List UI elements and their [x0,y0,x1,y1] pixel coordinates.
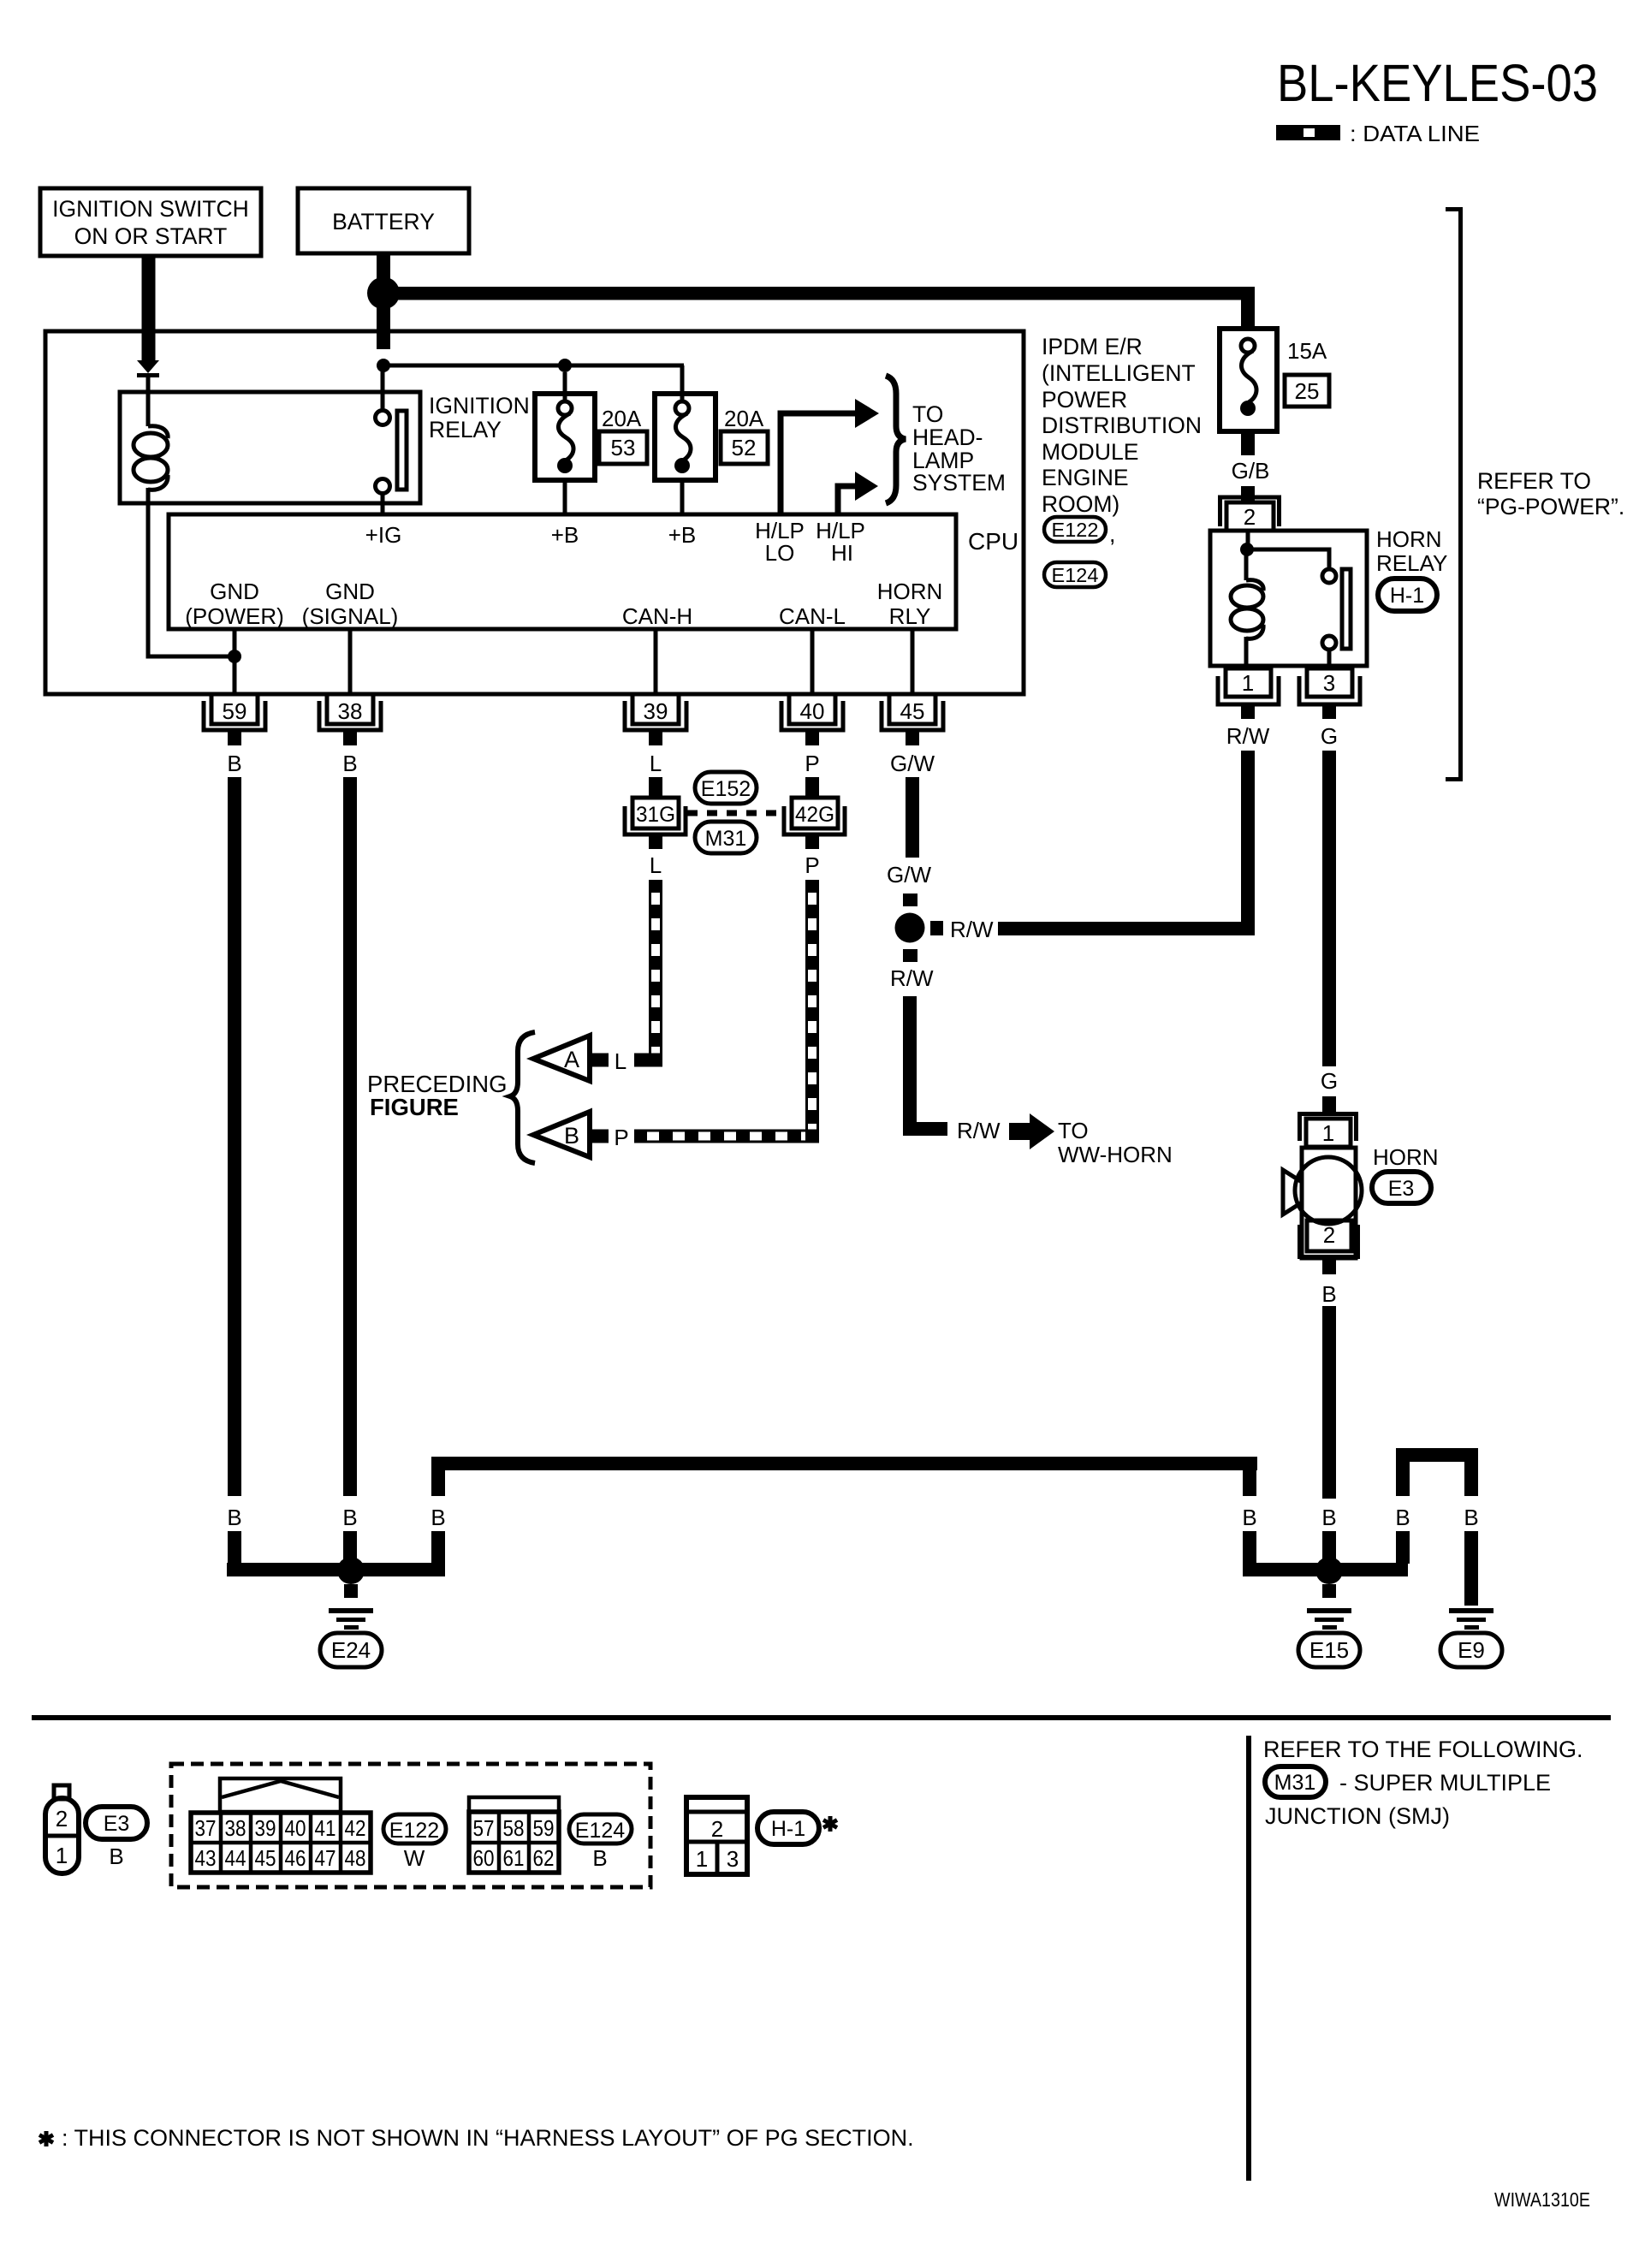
ground bus right [1243,1563,1408,1576]
svg-text:H-1: H-1 [1390,584,1424,608]
svg-text:39: 39 [644,698,668,724]
wire ignition switch feed (thick) [142,256,156,360]
connector 2 (horn) [1300,1220,1358,1274]
svg-text:G/W: G/W [890,751,935,776]
svg-text:M31: M31 [705,827,747,851]
svg-text:IGNITION: IGNITION [429,393,530,419]
connector ref E124 [1044,562,1106,587]
svg-text:B: B [1321,1281,1336,1307]
svg-text:L: L [650,852,662,878]
wire to fuse 52 [680,365,685,401]
connector ref M31 (SMJ) [1265,1766,1326,1797]
connector ref H-1 (bottom) [757,1812,819,1844]
ground symbol E9 [1449,1608,1494,1630]
wire G stub to horn (thick) [1322,1096,1336,1112]
connector face E3 (bottle) [45,1785,79,1873]
svg-text:G: G [1321,1068,1338,1094]
svg-text:45: 45 [255,1845,276,1871]
svg-text:ON OR START: ON OR START [74,223,228,249]
svg-text:B: B [342,751,357,776]
svg-text:P: P [805,751,819,776]
ground ref E24 [320,1633,382,1667]
connector face E124 grid [469,1812,559,1873]
connector ref E122 [1044,517,1106,542]
ignition relay coil [148,426,168,438]
connector 1 (horn) [1300,1114,1357,1148]
brace to headlamp system [886,376,906,503]
svg-text:JUNCTION (SMJ): JUNCTION (SMJ) [1265,1803,1450,1829]
svg-text:POWER: POWER [1042,387,1127,413]
wire relay contact to +IG [381,493,385,514]
svg-text:38: 38 [338,698,363,724]
svg-text:42G: 42G [795,803,834,827]
wire B from 59 (thick) [228,777,241,1496]
svg-text:1: 1 [1322,1120,1334,1146]
CPU box [169,514,956,629]
wire relay coil to ground junction [148,503,235,656]
horn relay coil [1244,549,1249,580]
wire to fuse 53 [563,372,567,401]
connector face H-1 [686,1797,747,1874]
connector ref H-1 [1378,579,1437,611]
connector pin 3 (horn relay) [1299,668,1360,719]
wire fuse to G/B label (thick) [1241,431,1255,455]
svg-text:HORN: HORN [877,579,943,604]
wire nub below E15 junction [1322,1584,1336,1598]
connector face E124 top bar [469,1797,559,1812]
link bus horizontal (thick) [431,1457,1257,1470]
svg-text:P: P [614,1125,628,1150]
diode (ignition switch feed) [137,360,159,373]
wire nub right of junction [930,921,943,935]
connector ref E3 (horn) [1372,1172,1431,1203]
connector ref E152 [695,772,757,804]
wire battery feed (thick) [377,253,390,349]
svg-text:MODULE: MODULE [1042,439,1138,465]
svg-text:59: 59 [223,698,247,724]
svg-text:IGNITION SWITCH: IGNITION SWITCH [52,196,249,222]
svg-text:E122: E122 [1052,519,1099,541]
svg-text:: DATA LINE: : DATA LINE [1350,121,1480,146]
connector pin 1 (horn relay) [1218,668,1279,719]
svg-text:- SUPER MULTIPLE: - SUPER MULTIPLE [1339,1770,1551,1796]
wire to relay contact [381,365,385,411]
svg-text:B: B [109,1843,123,1869]
wire R/W down (thick) [903,996,917,1136]
node battery junction [367,277,400,310]
wire nub below junction [903,949,917,962]
wire nub below E24 junction [344,1584,358,1598]
ignition relay box [120,392,420,503]
svg-text:REFER TO: REFER TO [1477,468,1591,494]
battery box [298,188,469,253]
connector ref M31 [695,822,757,853]
svg-text:RELAY: RELAY [1376,550,1447,576]
svg-text:57: 57 [473,1815,495,1841]
ignition switch box [40,188,261,256]
svg-text:1: 1 [56,1843,68,1868]
connector pin 45 [882,694,943,745]
svg-text:E24: E24 [331,1637,371,1663]
node gnd power junction [228,650,241,663]
svg-text:H-1: H-1 [771,1817,805,1841]
wire R/W from pin1 (thick) [1241,751,1255,935]
svg-text:47: 47 [315,1845,336,1871]
wire G from pin3 (thick) [1322,751,1336,1066]
svg-text:40: 40 [800,698,825,724]
wire L stub to 31G [649,777,662,798]
preceding figure triangle A [533,1036,590,1081]
svg-text:37: 37 [195,1815,217,1841]
svg-text:25: 25 [1295,378,1320,404]
svg-text:CAN-H: CAN-H [622,603,692,629]
arrow to WW-HORN [1009,1123,1030,1140]
wire G/W upper (thick) [906,777,919,858]
wire coil junction to contact [1247,549,1329,569]
svg-text:53: 53 [611,435,636,460]
wire GND SIGNAL pin 38 [348,629,353,694]
svg-text:20A: 20A [724,406,764,431]
node horn relay coil junction [1240,543,1254,556]
svg-text:A: A [564,1047,579,1072]
svg-text:46: 46 [285,1845,306,1871]
svg-text:R/W: R/W [890,965,934,991]
wire B resume segments right [1243,1531,1256,1564]
wire H/LP LO to headlamp arrow [781,413,855,514]
svg-text:+B: +B [551,522,579,548]
svg-text:G/B: G/B [1232,458,1270,484]
connector ref E3 (bottom) [86,1807,147,1839]
wire HORN RLY pin 45 [911,629,915,694]
svg-text:39: 39 [255,1815,276,1841]
svg-text:WW-HORN: WW-HORN [1058,1142,1173,1167]
svg-text:E15: E15 [1309,1637,1349,1663]
svg-text:B: B [1321,1505,1336,1530]
svg-text:B: B [564,1123,579,1149]
wire pin2 into relay [1246,531,1250,549]
legend data-line sample bar [1276,125,1340,140]
svg-text:60: 60 [473,1845,495,1871]
svg-text:+IG: +IG [365,522,402,548]
svg-text:GND: GND [210,579,259,604]
dashed group box [171,1764,650,1887]
svg-text:15A: 15A [1287,338,1327,364]
wire fuse 53 to +B [563,480,567,514]
connector 42G [784,798,845,849]
ground symbol E15 [1307,1608,1351,1630]
svg-text:G/W: G/W [887,862,931,888]
svg-text:(POWER): (POWER) [185,603,284,629]
wire B from horn (thick) [1322,1306,1336,1499]
svg-text:45: 45 [900,698,925,724]
svg-text:E124: E124 [1052,564,1099,586]
wire junction to fuses (horizontal) [383,364,684,368]
wire GND POWER pin 59 [233,629,237,694]
svg-text:BL-KEYLES-03: BL-KEYLES-03 [1277,54,1598,112]
svg-text:B: B [227,751,241,776]
svg-text:1: 1 [1242,670,1254,696]
svg-text:(INTELLIGENT: (INTELLIGENT [1042,360,1196,386]
svg-text:40: 40 [285,1815,306,1841]
svg-text:48: 48 [345,1845,366,1871]
svg-text:2: 2 [1244,504,1256,530]
svg-text:38: 38 [225,1815,246,1841]
svg-text:GND: GND [325,579,375,604]
node fuse 53 junction [558,359,572,372]
node R/W junction [895,913,925,943]
svg-text:G: G [1321,723,1338,749]
bracket refer to PG-POWER [1446,210,1461,780]
ground symbol E24 [329,1608,373,1630]
connector pin 59 [204,694,265,745]
connector face E122 grid [191,1813,371,1873]
node ground junction E24 [337,1557,365,1584]
fuse 53 (20A) [535,394,595,480]
wire CAN-L pin 40 [811,629,815,694]
SMJ dashed link 31G-42G [687,810,784,816]
svg-text:1: 1 [696,1846,708,1872]
svg-text:R/W: R/W [1226,723,1270,749]
svg-text:52: 52 [732,435,757,460]
svg-text:FIGURE: FIGURE [370,1094,459,1120]
svg-text:2: 2 [56,1806,68,1832]
svg-text:E124: E124 [575,1819,625,1843]
svg-text:62: 62 [533,1845,555,1871]
wire P stub to 42G [805,777,819,798]
svg-text:RLY: RLY [889,603,931,629]
svg-text:CAN-L: CAN-L [779,603,846,629]
svg-text:59: 59 [533,1815,555,1841]
wire H/LP HI to headlamp arrow [838,486,855,514]
svg-text:: THIS CONNECTOR IS NOT SHOWN: : THIS CONNECTOR IS NOT SHOWN IN “HARNES… [62,2125,914,2151]
wire CAN-L data line (striped) [805,880,819,1130]
svg-text:B: B [1464,1505,1478,1530]
svg-text:BATTERY: BATTERY [332,209,435,235]
asterisk mark (H-1) [823,1816,837,1832]
svg-text:DISTRIBUTION: DISTRIBUTION [1042,413,1202,438]
wire battery bus to 15A fuse (thick) [383,287,1255,300]
svg-text:E9: E9 [1458,1637,1485,1663]
svg-text:M31: M31 [1274,1771,1316,1795]
wire B from 38 (thick) [343,777,357,1496]
divider line (refer column) [1246,1736,1251,2181]
svg-text:B: B [1395,1505,1410,1530]
svg-text:2: 2 [711,1816,723,1842]
wire fuse 52 to +B [680,480,685,514]
svg-text:20A: 20A [602,406,642,431]
svg-text:R/W: R/W [957,1118,1001,1143]
svg-text:R/W: R/W [950,917,994,942]
horn body [1302,1148,1356,1258]
svg-text:3: 3 [727,1846,739,1872]
svg-text:B: B [592,1845,607,1871]
svg-text:,: , [1109,521,1115,547]
connector pin 38 [319,694,381,745]
branch loop to E9 [1396,1448,1478,1462]
svg-text:WIWA1310E: WIWA1310E [1494,2188,1590,2211]
svg-text:E3: E3 [104,1812,130,1836]
svg-text:REFER TO THE FOLLOWING.: REFER TO THE FOLLOWING. [1263,1737,1583,1762]
svg-text:W: W [404,1845,425,1871]
svg-text:LO: LO [765,540,795,566]
footnote asterisk [39,2131,53,2146]
svg-text:HEAD-: HEAD- [912,425,983,450]
wire CAN-H pin 39 [654,629,658,694]
wire CAN-H data line (striped) [649,880,662,1054]
svg-text:3: 3 [1323,670,1335,696]
connector pin 40 [781,694,843,745]
svg-text:B: B [342,1505,357,1530]
connector ref E124 (bottom) [569,1814,632,1843]
svg-text:P: P [805,852,819,878]
preceding figure triangle B [533,1112,590,1157]
svg-text:“PG-POWER”.: “PG-POWER”. [1477,494,1624,520]
svg-text:HORN: HORN [1376,526,1442,552]
wire nub above R/W junction [903,894,917,906]
horn relay box [1210,531,1367,666]
brace preceding figure [510,1032,535,1163]
svg-text:B: B [1242,1505,1256,1530]
connector 31G [625,798,686,849]
svg-text:58: 58 [503,1815,525,1841]
ground ref E9 [1440,1633,1502,1667]
svg-text:E3: E3 [1388,1177,1415,1201]
wire G/B to connector 2 (thick) [1241,486,1255,503]
svg-text:61: 61 [503,1845,525,1871]
link wire corner left [431,1457,445,1496]
link wire corner right [1243,1457,1256,1496]
svg-text:CPU: CPU [968,528,1018,555]
svg-text:(SIGNAL): (SIGNAL) [302,603,399,629]
ground bus left [227,1563,445,1576]
node relay contact top junction [377,359,390,372]
wire B resume segments left [228,1531,241,1564]
svg-text:31G: 31G [636,803,675,827]
fuse 15A [1220,329,1277,431]
svg-text:41: 41 [315,1815,336,1841]
svg-text:TO: TO [1058,1118,1089,1143]
svg-text:42: 42 [345,1815,366,1841]
svg-text:HORN: HORN [1373,1144,1439,1170]
connector face E122 top [220,1778,341,1812]
svg-text:B: B [431,1505,445,1530]
svg-text:L: L [650,751,662,776]
svg-text:E152: E152 [701,777,751,801]
ground ref E15 [1298,1633,1360,1667]
svg-text:L: L [615,1048,627,1074]
connector ref E122 (bottom) [383,1814,446,1843]
svg-text:E122: E122 [389,1819,439,1843]
connector pin 39 [625,694,686,745]
connector 2 (horn relay) [1220,497,1280,531]
svg-text:TO: TO [912,401,943,427]
svg-text:2: 2 [1323,1222,1335,1248]
svg-text:RELAY: RELAY [429,417,502,442]
horn relay contact [1322,569,1336,583]
svg-text:43: 43 [195,1845,217,1871]
node ground junction E15 [1315,1557,1343,1584]
svg-text:IPDM E/R: IPDM E/R [1042,334,1143,359]
svg-text:HI: HI [831,540,853,566]
svg-text:44: 44 [225,1845,246,1871]
svg-text:SYSTEM: SYSTEM [912,470,1006,496]
ignition relay contact circles and bar [376,411,390,425]
svg-text:ENGINE: ENGINE [1042,465,1129,490]
svg-text:ROOM): ROOM) [1042,491,1119,517]
svg-text:B: B [227,1505,241,1530]
separator line [32,1715,1611,1720]
IPDM E/R outer box [45,331,1024,694]
svg-text:+B: +B [668,522,697,548]
fuse 52 (20A) [655,394,716,480]
wire R/W horizontal to horn relay (thick) [998,922,1248,935]
